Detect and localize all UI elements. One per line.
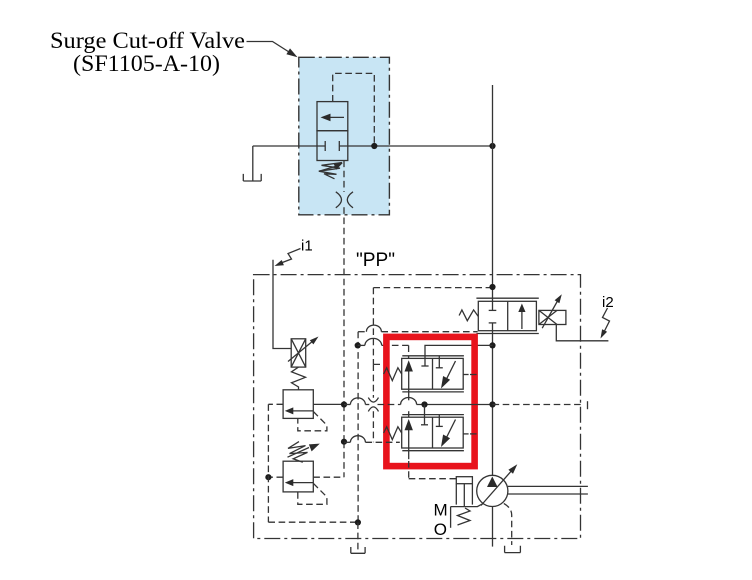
valve V1 spring with adjust arrow [319, 163, 342, 179]
pilot dashed line inside blue box [333, 73, 375, 146]
leader i2 zigzag arrow [603, 308, 610, 331]
svg-text:i1: i1 [301, 238, 313, 255]
svg-text:(SF1105-A-10): (SF1105-A-10) [73, 51, 220, 76]
pump drive shaft double line [508, 485, 588, 487]
wire: i2 output line [556, 325, 608, 341]
wire: i1 line to throttle [273, 260, 291, 349]
wire: dashed to bottom tank [357, 522, 359, 553]
crossing waist symbol [368, 398, 378, 403]
S2 supply dashed from hump [408, 411, 410, 417]
S2 diagonal arrow [447, 420, 456, 438]
node: junction P line / pilot box [489, 284, 495, 290]
wire: pilot line y=404.5 [313, 403, 344, 405]
solenoid valve S2 (lower in red box) [402, 414, 464, 416]
pump case drain dashed [504, 503, 512, 545]
tank symbol pump drain [505, 546, 521, 553]
wire: pilot line y=345.4 left part with hump [358, 344, 365, 346]
compensator spring [458, 508, 471, 525]
leader i1 zigzag arrow [281, 249, 301, 264]
S1 up arrow [408, 371, 410, 400]
valve V2 (top right, i2) body [478, 301, 536, 330]
S2 pilot T port [424, 405, 426, 425]
node: drain junction [355, 342, 361, 348]
wire: dashed line to right boundary port [493, 404, 582, 406]
R1 left drain dashed [268, 403, 283, 405]
S1 right stub [463, 374, 468, 376]
node: junction pilot S2 [421, 401, 427, 407]
wire: vertical dashed drain x=358 [357, 332, 359, 523]
inner pilot dashed box top [373, 287, 491, 289]
spring between throttle and relief R1 [292, 367, 306, 390]
leader line from title to blue box [247, 42, 290, 53]
main line through blue box valve [253, 145, 325, 147]
outer manifold boundary (dash-dot) [254, 275, 581, 539]
wire: spring pilot line y=442.3 [341, 439, 347, 445]
wire: left drain dashed vertical [267, 404, 269, 522]
tank symbol bottom left [351, 547, 365, 553]
node: tank junction [355, 519, 361, 525]
R2 pilot loop dashed [298, 483, 327, 504]
relief valve R1 [283, 390, 313, 419]
blue highlight box (surge cut-off valve) [299, 57, 390, 215]
svg-text:O: O [434, 520, 447, 539]
compensator cylinder [456, 477, 472, 484]
node: junction on left drain [265, 474, 271, 480]
S2 right stub [463, 433, 468, 435]
svg-text:"PP": "PP" [356, 250, 395, 271]
valve V1 body (blue box) top square with check arrow [317, 102, 348, 131]
port tick on boundary [587, 401, 589, 409]
wire: pilot line valve S1 to P [425, 345, 493, 366]
S1 diagonal arrow [447, 361, 456, 379]
node: junction on P line [489, 401, 495, 407]
main vertical line P [492, 85, 494, 310]
S1 spring [384, 368, 402, 381]
pump output triangle [487, 477, 498, 488]
S2 right square T port [438, 415, 440, 427]
R2 entry dashed from drain line [313, 476, 344, 478]
node: junction on main vertical [489, 143, 495, 149]
orifice below valve V1 [336, 192, 342, 208]
valve V2 blocked ports (T bars) [489, 309, 497, 311]
svg-text:Surge Cut-off Valve: Surge Cut-off Valve [50, 28, 245, 53]
wire: drop to tank left of blue box [252, 146, 254, 174]
node: junction below valve V2 [489, 342, 495, 348]
S2 up arrow [408, 430, 410, 460]
relief valve R2 [283, 461, 313, 492]
wire: bottom drain dashed horizontal [268, 521, 358, 523]
node: pilot junction in blue box [371, 143, 377, 149]
pump circle [477, 475, 508, 506]
throttle valve (left, with i1) [291, 339, 306, 367]
valve V2 proportional solenoid [539, 310, 566, 324]
R2 left dashed to drain [268, 476, 283, 478]
valve V1 bottom square (closed position) [317, 131, 348, 161]
red highlight box [386, 337, 474, 466]
S1 right square T port [438, 356, 440, 368]
adjustable spring above relief R2 [288, 442, 308, 463]
compensator link to pump [451, 503, 484, 506]
S2 spring [384, 427, 402, 440]
tank symbol left [243, 174, 261, 181]
svg-text:M: M [434, 500, 448, 519]
solenoid valve S1 (upper in red box) [402, 355, 464, 357]
valve V2 spring [459, 310, 478, 321]
wire: pilot dashed vertical with branch [372, 288, 374, 365]
M O port line [450, 507, 452, 528]
valve V2 up arrow [521, 310, 523, 329]
R1 pilot loop dashed [298, 412, 327, 431]
pump variable arrow [481, 469, 514, 506]
wire: S2 drain to compensator [408, 461, 410, 479]
wire: dashed drain line from orifice downward [343, 161, 345, 193]
wire: drain dashed y=331.7 with hump [358, 331, 366, 333]
